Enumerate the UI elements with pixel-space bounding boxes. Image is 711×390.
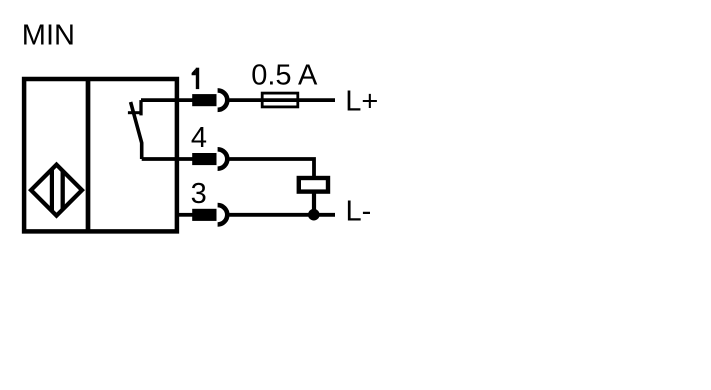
svg-text:L+: L+ bbox=[345, 86, 378, 118]
svg-text:4: 4 bbox=[191, 122, 207, 154]
svg-text:MIN: MIN bbox=[22, 20, 75, 52]
svg-text:L-: L- bbox=[346, 195, 372, 227]
svg-text:3: 3 bbox=[191, 178, 207, 210]
svg-text:0.5 A: 0.5 A bbox=[251, 59, 318, 91]
